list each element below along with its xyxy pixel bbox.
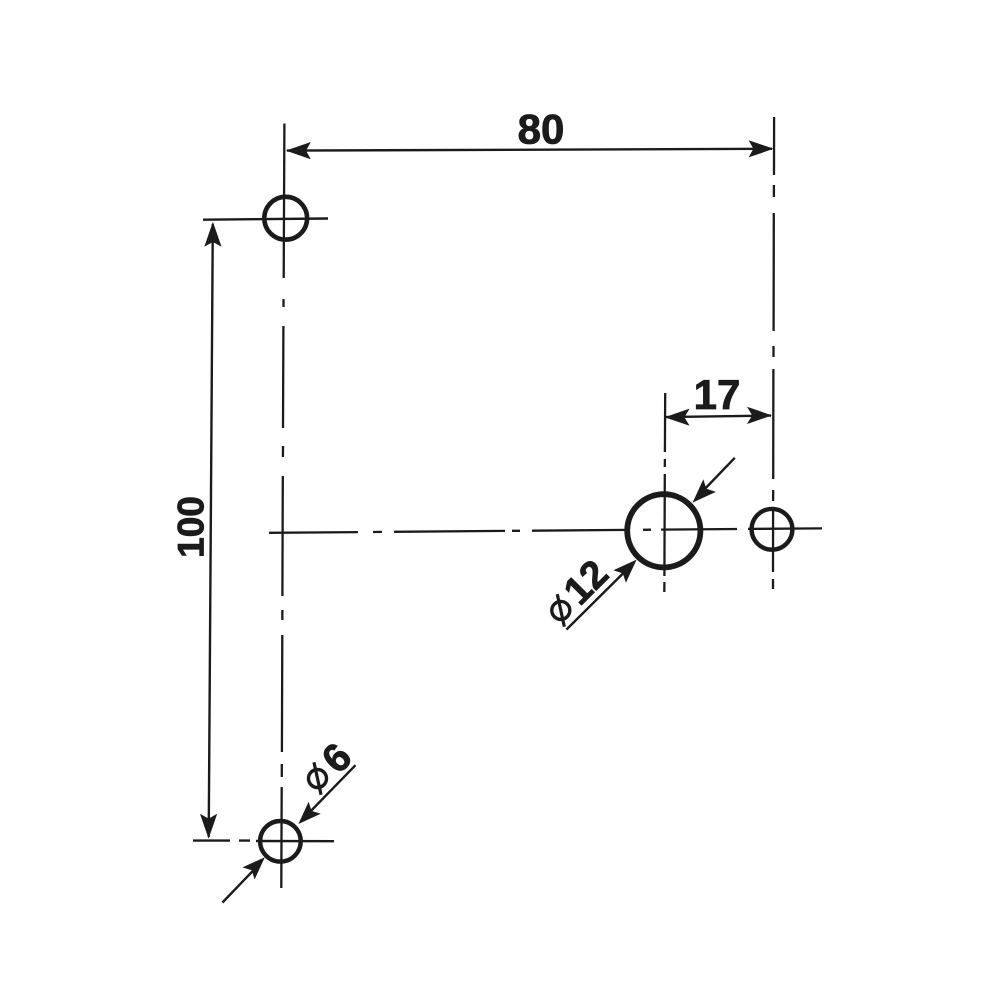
svg-text:80: 80 [518, 106, 565, 153]
svg-text:100: 100 [171, 496, 212, 558]
svg-text:17: 17 [694, 371, 741, 418]
